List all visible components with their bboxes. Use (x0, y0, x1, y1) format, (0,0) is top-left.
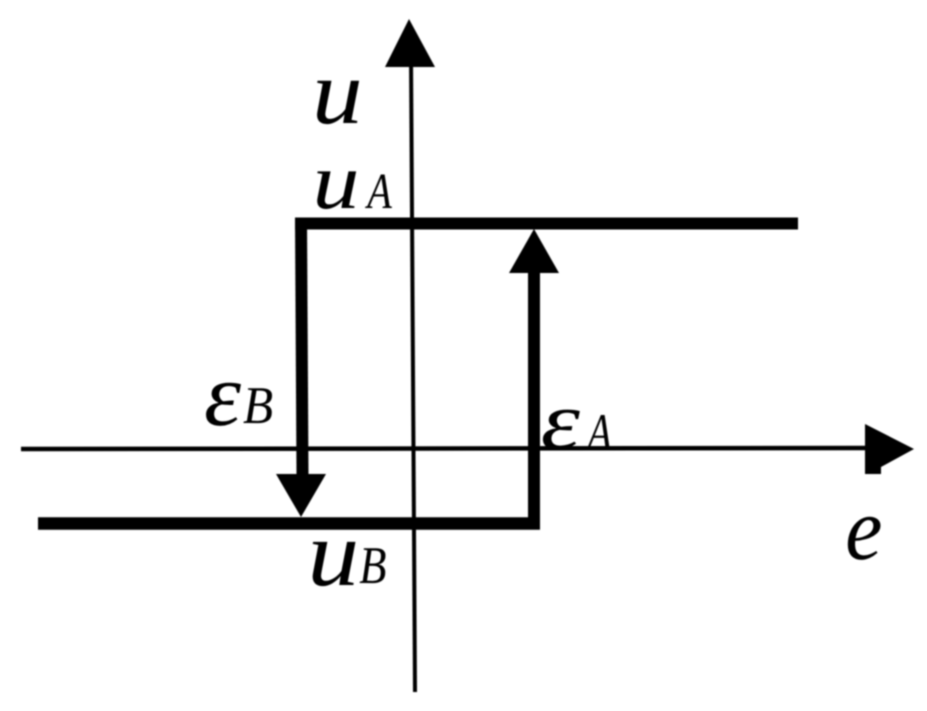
svg-text:e: e (845, 480, 882, 579)
down arrowhead (276, 474, 326, 517)
svg-text:u: u (312, 42, 363, 144)
x-axis e (horizontal axis line) (21, 448, 868, 449)
svg-text:u: u (308, 502, 360, 606)
svg-text:B: B (359, 537, 386, 595)
y-axis u (vertical axis line) (411, 55, 415, 692)
up arrowhead (509, 229, 559, 273)
y-axis arrowhead (385, 19, 435, 67)
svg-text:B: B (243, 377, 273, 435)
svg-text:u: u (313, 138, 360, 226)
x-axis arrowhead (865, 424, 914, 474)
hysteresis left vertical (down branch at eB) (301, 218, 303, 476)
hysteresis bottom segment at uB (38, 517, 540, 530)
svg-text:ε: ε (204, 346, 241, 445)
hysteresis right vertical (up branch at eA) (528, 271, 540, 529)
hysteresis top segment at uA (295, 218, 798, 230)
svg-text:A: A (585, 404, 612, 462)
svg-text:ε: ε (541, 376, 581, 468)
svg-text:A: A (365, 164, 392, 219)
